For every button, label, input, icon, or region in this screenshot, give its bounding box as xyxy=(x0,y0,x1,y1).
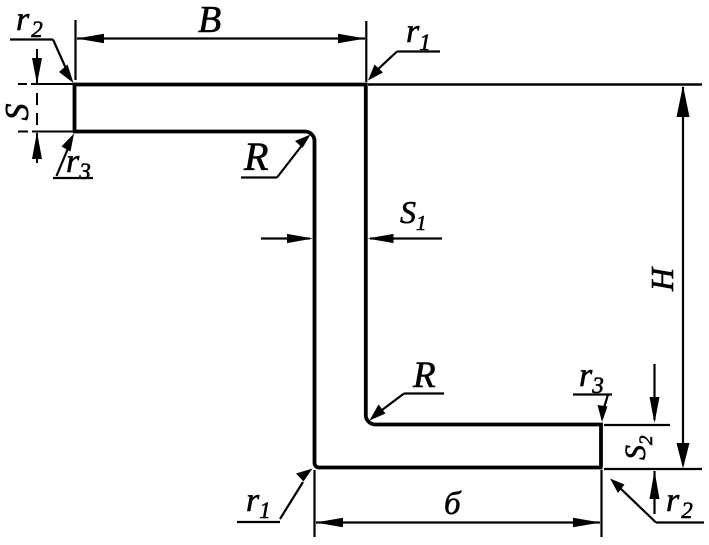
dimension S2: lower line with up arrow xyxy=(653,471,655,514)
dimension S2: upper line with down arrow xyxy=(653,364,655,420)
dimension B: dimension line with arrows xyxy=(77,37,365,39)
svg-text:R: R xyxy=(412,355,436,396)
svg-text:S: S xyxy=(0,104,36,121)
svg-text:H: H xyxy=(644,266,680,292)
dimension H: dimension line with arrows xyxy=(682,87,684,465)
dimension в: right extension line below flange end xyxy=(600,470,602,537)
svg-text:B: B xyxy=(198,0,221,41)
svg-text:R: R xyxy=(243,134,268,179)
wire: extension of top edge to the left (for S), dashed start xyxy=(18,83,74,85)
wire: extension of flange bottom edge to the left (for S) xyxy=(18,131,73,133)
dimension S1: left segment with arrow xyxy=(261,237,310,239)
wire: thin extension of top edge to the right (for H) xyxy=(368,83,702,86)
dimension S: vertical line with outside arrows xyxy=(36,49,38,83)
dimension B: extension above web right face xyxy=(365,21,367,82)
dimension в: left extension line below web xyxy=(313,470,315,537)
profile outline: outer contour (top edge, web right face, bottom flange top edge, right end) xyxy=(75,85,602,468)
dimension S1: right segment with arrow xyxy=(370,237,442,239)
profile outline: inner contour (top flange bottom edge, web left face, bottom flange bottom edge) xyxy=(73,132,603,468)
dimension в: dimension line with inside arrows xyxy=(316,521,600,523)
dimension B: left extension line xyxy=(74,20,76,80)
svg-text:б: б xyxy=(444,486,462,522)
wire: extension of bottom flange top edge to the right (for S2) xyxy=(604,424,670,426)
wire: extension of bottom flange bottom edge to the right (for H and S2) xyxy=(604,468,702,470)
